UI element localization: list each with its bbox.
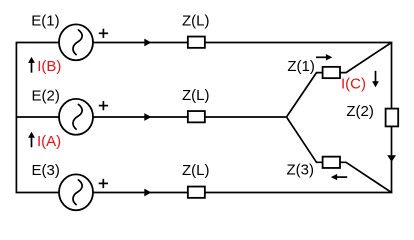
node junction <box>285 116 287 118</box>
wire phase2 left stub <box>16 116 59 118</box>
impedance Z(L) phase2 <box>188 111 205 122</box>
svg-text:I(A): I(A) <box>37 133 61 150</box>
current arrow I(A) <box>28 132 35 148</box>
impedance Z(3) <box>323 157 340 168</box>
arrow phase1 current <box>144 39 151 47</box>
wire phase2 line <box>93 116 286 118</box>
polarity plus E(2) <box>99 101 108 110</box>
arrow Z2 current <box>387 155 396 162</box>
impedance Z(1) <box>323 67 340 78</box>
svg-text:Z(L): Z(L) <box>182 87 210 104</box>
svg-text:I(C): I(C) <box>341 75 366 92</box>
ac source E(2) <box>59 99 93 135</box>
svg-text:E(2): E(2) <box>32 88 60 105</box>
svg-text:E(1): E(1) <box>31 13 59 30</box>
wire phase1 left stub <box>16 42 59 44</box>
wire branch Z1 <box>287 43 392 118</box>
polarity plus E(1) <box>99 29 108 38</box>
svg-text:Z(L): Z(L) <box>182 162 210 179</box>
arrow phase2 current <box>144 113 151 121</box>
wire branch Z3 <box>287 117 392 193</box>
svg-text:Z(3): Z(3) <box>287 162 315 179</box>
current arrow I(B) <box>28 57 35 73</box>
wire phase1 line <box>93 42 392 44</box>
svg-text:Z(2): Z(2) <box>346 103 374 120</box>
ac source E(1) <box>59 24 93 60</box>
wire right vertical <box>391 43 393 193</box>
arrow phase3 current <box>144 189 151 197</box>
impedance Z(L) phase1 <box>188 37 205 48</box>
svg-text:I(B): I(B) <box>37 58 61 75</box>
svg-text:Z(1): Z(1) <box>287 58 315 75</box>
wire phase3 line <box>93 192 392 194</box>
ac source E(3) <box>59 174 93 210</box>
wire left bus <box>15 43 17 193</box>
arrow I(C) direction <box>372 71 379 88</box>
svg-text:E(3): E(3) <box>32 162 60 179</box>
impedance Z(L) phase3 <box>188 187 205 198</box>
arrow Z3 current <box>331 174 347 180</box>
impedance Z(2) <box>386 109 399 127</box>
arrow Z1 current <box>316 54 332 60</box>
polarity plus E(3) <box>99 179 108 188</box>
wire phase3 left stub <box>16 192 59 194</box>
svg-text:Z(L): Z(L) <box>182 13 210 30</box>
